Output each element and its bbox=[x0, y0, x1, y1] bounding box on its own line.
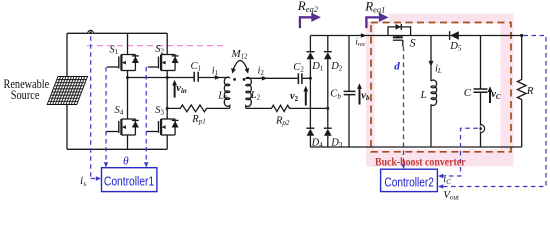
diode D5 bbox=[450, 31, 459, 40]
inductor L1 bbox=[224, 77, 230, 108]
arrow i2 bbox=[262, 76, 268, 81]
arrow i_rec bbox=[361, 33, 367, 38]
svg-text:C: C bbox=[464, 87, 472, 99]
transistor S3 bbox=[147, 119, 179, 135]
blue dashed gate line S2 S3 bbox=[145, 67, 147, 163]
transistor S4 bbox=[106, 119, 139, 135]
svg-text:Controller2: Controller2 bbox=[384, 174, 434, 189]
junction node rectifier AC input 2 bbox=[326, 107, 329, 110]
transistor S2 bbox=[148, 55, 179, 71]
pink highlight frame of buck-boost converter bbox=[366, 14, 514, 167]
diode D2 bbox=[324, 52, 332, 60]
purple arrow R_eq2 bbox=[300, 13, 321, 28]
wire Cb branch bbox=[348, 36, 350, 148]
blue dashed V_out sense line bbox=[443, 36, 547, 187]
svg-text:Controller1: Controller1 bbox=[104, 174, 154, 189]
junction node bridge leg B top bbox=[166, 76, 169, 79]
wire rectifier leg2 bbox=[327, 36, 329, 148]
current probe i_C bbox=[479, 125, 484, 133]
Controller1 box bbox=[102, 168, 157, 192]
svg-text:S: S bbox=[410, 35, 416, 49]
label Renewable Source bbox=[4, 77, 50, 102]
svg-text:Buck-boost converter: Buck-boost converter bbox=[375, 155, 466, 169]
wire primary top bbox=[128, 77, 230, 79]
wire bottom rail left bbox=[67, 148, 167, 150]
wire secondary top bbox=[246, 77, 311, 79]
wire top rail left bbox=[67, 32, 167, 34]
junction node bridge leg A output bbox=[126, 76, 129, 79]
blue dashed duty line d bbox=[403, 47, 405, 165]
diode D1 bbox=[306, 52, 314, 60]
svg-text:θ: θ bbox=[123, 156, 129, 168]
polarity dot L2 bbox=[243, 78, 246, 81]
svg-text:d: d bbox=[394, 61, 400, 73]
capacitor Cb bbox=[344, 91, 356, 94]
wire rectifier leg1 bbox=[309, 36, 311, 148]
wire primary bottom bbox=[167, 107, 230, 109]
wire L branch bbox=[430, 36, 432, 148]
wire secondary bottom bbox=[246, 107, 328, 109]
wire left vertical to panel bbox=[66, 33, 68, 149]
arrow v_b bbox=[357, 83, 362, 104]
Controller2 box bbox=[381, 169, 438, 191]
blue dashed gate line S1 S4 bbox=[105, 67, 107, 163]
capacitor C1 bbox=[194, 72, 198, 82]
diode D3 bbox=[324, 128, 332, 136]
resistor Rp1 bbox=[178, 105, 209, 112]
purple arrow R_eq1 bbox=[366, 13, 388, 28]
arrow v_in bbox=[172, 80, 177, 98]
svg-text:R: R bbox=[526, 85, 534, 97]
arrow v2 bbox=[303, 86, 308, 106]
wire rectifier top rail to output node bbox=[310, 35, 521, 37]
coupling arrow M12 bbox=[231, 61, 249, 74]
resistor R bbox=[517, 78, 526, 101]
blue dashed i_s sense line bbox=[91, 36, 97, 178]
capacitor C bbox=[474, 89, 488, 92]
switch S MOSFET bbox=[388, 24, 411, 47]
junction node Vout output bbox=[520, 34, 523, 37]
diode D4 bbox=[306, 128, 314, 136]
junction node rectifier AC input 1 bbox=[309, 77, 312, 80]
wire H-bridge right leg bbox=[166, 33, 168, 149]
inductor L bbox=[431, 80, 437, 105]
wire R branch bbox=[521, 36, 523, 148]
junction node bridge leg B output bbox=[166, 107, 169, 110]
resistor Rp2 bbox=[270, 105, 291, 111]
polarity dot L1 bbox=[233, 78, 236, 81]
solar panel renewable source bbox=[47, 77, 87, 105]
wire H-bridge left leg bbox=[127, 33, 129, 149]
svg-text:L: L bbox=[420, 89, 427, 101]
arrow i_L bbox=[429, 61, 434, 67]
magenta dashed line bbox=[87, 45, 224, 47]
svg-text:Source: Source bbox=[11, 88, 40, 102]
transistor S1 bbox=[107, 55, 139, 71]
arrow i1 bbox=[215, 75, 221, 80]
capacitor C2 bbox=[298, 73, 302, 84]
wire C branch bbox=[480, 36, 482, 148]
red dashed box Buck-boost converter bbox=[371, 23, 511, 152]
arrow v_C bbox=[488, 86, 493, 103]
wire rectifier bottom rail bbox=[310, 146, 521, 148]
blue dashed i_C sense line bbox=[443, 128, 478, 176]
inductor L2 bbox=[246, 77, 252, 108]
current probe i_s bbox=[88, 30, 94, 34]
